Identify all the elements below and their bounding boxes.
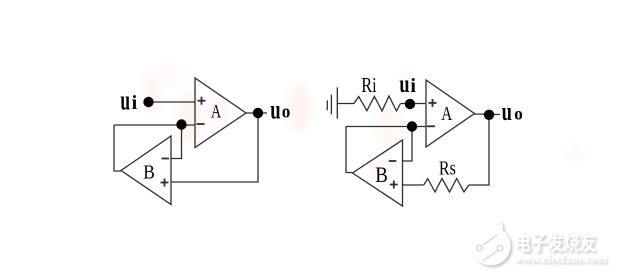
svg-text:www.elecfans.com: www.elecfans.com	[514, 254, 607, 266]
svg-text:u: u	[399, 70, 409, 97]
svg-text:B: B	[375, 164, 388, 188]
svg-text:u: u	[120, 85, 130, 116]
svg-text:A: A	[211, 100, 221, 122]
svg-text:i: i	[132, 92, 138, 114]
svg-text:o: o	[514, 103, 523, 124]
svg-text:o: o	[282, 101, 291, 122]
svg-text:u: u	[270, 95, 280, 125]
svg-text:Ri: Ri	[361, 74, 376, 97]
svg-text:B: B	[143, 161, 155, 184]
svg-text:A: A	[441, 102, 452, 125]
svg-text:Rs: Rs	[439, 157, 456, 179]
svg-text:u: u	[502, 97, 513, 126]
svg-text:i: i	[410, 75, 416, 97]
